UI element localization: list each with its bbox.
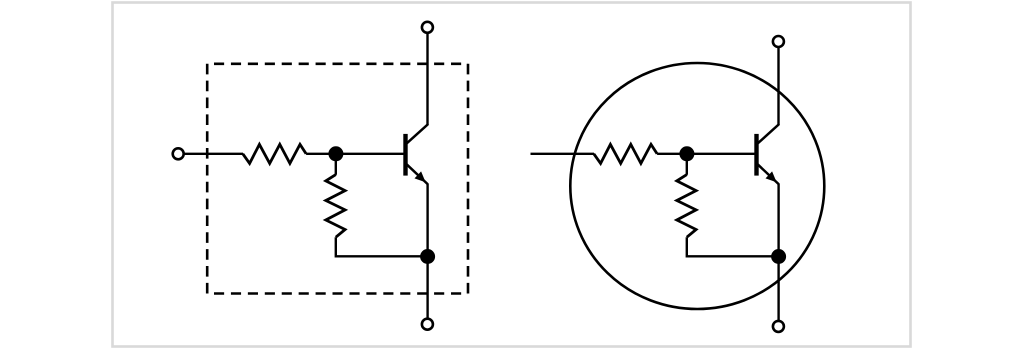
node B (emitter junction dot): [420, 249, 435, 264]
wire: node C down to resistor R4: [686, 154, 688, 175]
dashed box (sub-circuit boundary): [207, 64, 468, 294]
resistor R1 (series, horizontal): [243, 144, 306, 163]
wire: R4 down and right to emitter node: [687, 237, 779, 256]
input terminal (left, open circle): [173, 148, 184, 159]
bottom terminal (open circle): [773, 321, 784, 332]
wire: input terminal to resistor R1: [184, 153, 243, 155]
node C (base junction dot): [679, 146, 694, 161]
top terminal (open circle): [773, 36, 784, 47]
circle outline (component envelope): [570, 63, 824, 309]
resistor R2 (shunt, vertical): [326, 175, 345, 238]
resistor R4 (shunt, vertical): [677, 175, 696, 238]
transistor Q1 collector stroke: [407, 124, 429, 144]
transistor Q2 collector stroke: [758, 124, 780, 144]
resistor R3 (series, horizontal): [594, 144, 657, 163]
wire: emitter down to bottom terminal: [777, 184, 779, 321]
wire: R1 to base of Q1: [306, 153, 405, 155]
node A (base junction dot): [328, 146, 343, 161]
wire: R3 to base of Q2: [657, 153, 756, 155]
transistor Q2 emitter arrowhead: [766, 171, 777, 182]
transistor Q2 emitter stroke: [758, 164, 779, 184]
wire: emitter down to bottom terminal: [426, 184, 428, 319]
wire: R2 down and right to emitter node: [336, 237, 428, 256]
wire: input lead to resistor R3: [531, 153, 595, 155]
wire: collector up to top terminal: [426, 33, 428, 125]
wire: node A down to resistor R2: [335, 154, 337, 175]
transistor Q2 (NPN) base bar: [754, 134, 758, 176]
top terminal (open circle): [422, 22, 433, 33]
node D (emitter junction dot): [771, 249, 786, 264]
transistor Q1 emitter arrowhead: [415, 171, 426, 182]
transistor Q1 (NPN) base bar: [403, 134, 407, 176]
bottom terminal (open circle): [422, 319, 433, 330]
transistor Q1 emitter stroke: [407, 164, 428, 184]
wire: collector up to top terminal: [777, 47, 779, 125]
